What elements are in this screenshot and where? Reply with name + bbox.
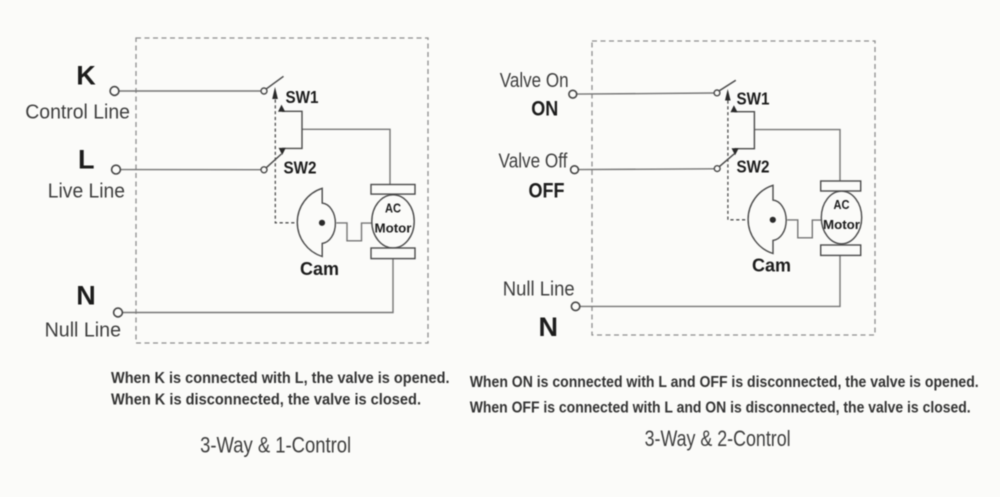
- svg-text:OFF: OFF: [529, 180, 565, 203]
- svg-text:L: L: [78, 145, 95, 175]
- svg-text:3-Way & 1-Control: 3-Way & 1-Control: [200, 433, 351, 458]
- svg-text:3-Way & 2-Control: 3-Way & 2-Control: [645, 426, 791, 451]
- svg-text:Valve On: Valve On: [500, 70, 569, 92]
- svg-text:When OFF is connected with L a: When OFF is connected with L and ON is d…: [470, 400, 971, 417]
- svg-text:Cam: Cam: [752, 256, 791, 276]
- svg-text:Cam: Cam: [300, 259, 339, 279]
- svg-text:N: N: [538, 312, 558, 342]
- svg-text:Motor: Motor: [823, 217, 860, 232]
- svg-text:Live Line: Live Line: [48, 181, 125, 203]
- svg-text:SW1: SW1: [286, 87, 319, 107]
- svg-text:Null Line: Null Line: [45, 320, 121, 342]
- svg-text:When K is disconnected, the va: When K is disconnected, the valve is clo…: [111, 392, 421, 409]
- svg-text:Null Line: Null Line: [503, 279, 575, 301]
- svg-text:Valve Off: Valve Off: [499, 150, 568, 172]
- svg-text:When ON is connected with L an: When ON is connected with L and OFF is d…: [470, 374, 979, 391]
- svg-text:ON: ON: [531, 98, 558, 121]
- svg-text:AC: AC: [385, 201, 402, 216]
- svg-text:N: N: [76, 281, 96, 311]
- svg-text:K: K: [76, 61, 96, 91]
- svg-text:Control Line: Control Line: [25, 102, 130, 124]
- svg-text:SW2: SW2: [284, 158, 317, 178]
- svg-text:AC: AC: [834, 197, 851, 212]
- svg-text:SW2: SW2: [737, 157, 770, 177]
- svg-text:When K is connected with L, th: When K is connected with L, the valve is…: [111, 370, 450, 387]
- svg-text:Motor: Motor: [375, 221, 412, 236]
- svg-text:SW1: SW1: [737, 89, 770, 109]
